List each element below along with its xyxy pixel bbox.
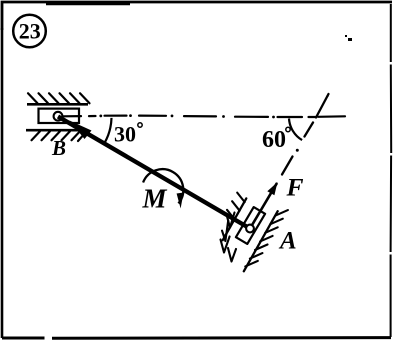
support A: slider block (rotated) bbox=[236, 207, 265, 244]
svg-text:60: 60 bbox=[262, 127, 286, 153]
ink speck bbox=[345, 35, 347, 37]
support B: slider block bbox=[39, 109, 80, 123]
wire: rod from B to A bbox=[58, 117, 250, 229]
wire: horizontal dash-dot centerline bbox=[63, 116, 345, 117]
svg-text:23: 23 bbox=[19, 19, 41, 44]
moment M arc with arrowhead bbox=[143, 169, 183, 203]
centerline dots bbox=[99, 115, 102, 118]
svg-text:30: 30 bbox=[114, 122, 136, 147]
support B: lower wall with hatching bbox=[26, 129, 85, 132]
support A: right guide wall bbox=[244, 211, 278, 271]
svg-text:M: M bbox=[142, 184, 168, 214]
support A: left wall hatching bbox=[227, 193, 245, 220]
support B: upper wall with hatching bbox=[27, 103, 88, 106]
svg-text:B: B bbox=[51, 136, 66, 160]
wire: slanted dash-dot centerline through P bbox=[282, 94, 329, 175]
angle arc 60 deg at P bbox=[289, 119, 302, 141]
support A: pin circle bbox=[246, 225, 254, 233]
arrow wedge on rod near B bbox=[70, 121, 92, 140]
support A: left guide wall bbox=[223, 198, 247, 240]
force F arrow along slant at A bbox=[250, 184, 277, 229]
angle arc 30 deg at B bbox=[105, 118, 112, 143]
ink speck bbox=[327, 95, 329, 97]
problem number badge "23" bbox=[13, 15, 46, 48]
svg-text:A: A bbox=[278, 228, 297, 255]
support A: lower-left checkmark hatches bbox=[227, 213, 235, 228]
support B: pin circle bbox=[54, 112, 63, 121]
svg-text:F: F bbox=[286, 173, 304, 202]
support A: right wall hatching bbox=[245, 210, 288, 266]
